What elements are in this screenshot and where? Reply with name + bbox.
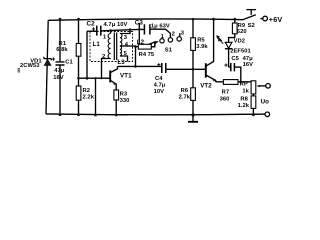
node junction dots bottom rail [59,113,255,116]
terminal Uo- [265,112,270,117]
svg-text:3: 3 [181,30,185,36]
label C1 47u 16V [53,60,73,81]
svg-text:C5: C5 [231,56,239,62]
pin 1 riser [110,31,112,34]
label C4 [154,76,166,95]
transistor VT1 [110,66,117,90]
svg-text:R8: R8 [240,96,248,102]
stray mark [18,68,20,73]
wire C4 to VT2 base [166,68,206,70]
switch S1 contact 1 [160,39,164,43]
svg-text:L1: L1 [93,41,101,48]
resistor R2 [76,86,81,100]
svg-text:R2: R2 [83,88,91,94]
svg-text:75: 75 [148,52,155,58]
svg-text:L3: L3 [117,59,125,66]
label C2 [87,20,128,28]
svg-text:R7: R7 [222,89,230,95]
label VD2 2EF501 [230,38,251,54]
capacitor C2 [92,26,101,36]
svg-text:1μ 63V: 1μ 63V [151,23,170,29]
node junction pin4 R4 [134,45,137,48]
terminal Uo+ [266,84,271,89]
potentiometer RP [251,81,266,94]
wire R3 to bottom rail [115,100,117,115]
label R5 3.9k [196,37,208,50]
ground [188,113,198,122]
transformer core [114,33,116,61]
resistor R4 [136,42,155,49]
node junction collector line [134,65,137,68]
svg-text:U​o: U​o [261,98,270,105]
label R7 360 [220,89,230,102]
switch S1 contact 3 [177,37,181,41]
svg-text:S1: S1 [165,47,173,53]
svg-text:620: 620 [237,29,247,35]
label R8 1.2k [238,96,250,108]
svg-text:2EF501: 2EF501 [230,49,251,55]
resistor R7 [223,80,238,85]
node junction base pin2 [100,77,102,79]
transformer dashed box [90,32,133,62]
svg-text:6.8k: 6.8k [56,47,68,53]
capacitor C1 [52,58,65,66]
svg-text:330: 330 [120,98,130,104]
diode VD2 [225,42,232,67]
svg-text:4.7μ 10V: 4.7μ 10V [104,22,128,28]
svg-text:S2: S2 [248,23,255,29]
wire R1 R2 branch [78,19,80,115]
label R3 330 [120,92,130,104]
zener VD1 [44,57,52,66]
svg-text:1.2k: 1.2k [238,103,250,109]
wire bottom rail [46,113,265,116]
wire collector line VT1 to C4 [118,65,162,67]
svg-text:2.2k: 2.2k [83,94,95,100]
node junction R5 R6 base [192,68,195,71]
svg-text:R5: R5 [197,37,205,43]
svg-text:3: 3 [124,35,128,41]
wire C2 left [87,31,97,78]
wire left edge [46,20,48,114]
svg-text:3.9k: 3.9k [196,44,208,50]
svg-text:16V: 16V [53,75,64,81]
svg-text:C4: C4 [155,76,163,82]
svg-text:2: 2 [172,32,175,38]
svg-text:C1: C1 [65,60,73,66]
switch S2 [243,10,263,20]
label C5 47u 16V [231,56,253,68]
wire C3 right to contact 2 [150,29,171,37]
transformer L2 winding [120,34,122,47]
svg-text:47μ: 47μ [54,68,65,74]
wire contact 3 stub [179,33,181,36]
label R4 75 [139,52,155,58]
capacitor C5 [224,63,240,82]
svg-text:47μ: 47μ [243,56,254,62]
wire top rail [48,19,243,20]
pin 5 wire [120,56,128,62]
svg-text:RP: RP [240,82,248,88]
resistor R9 [229,19,237,42]
svg-text:+6V: +6V [269,15,283,24]
switch S1 contact 2 [168,38,172,42]
node junction C5 emitter [240,81,243,84]
node junction dots top rail [59,18,237,21]
label R9 620 [237,23,247,35]
node junction base C2 [86,77,89,80]
svg-text:C2: C2 [87,20,96,27]
pin 4 wire [120,45,136,47]
svg-text:10V: 10V [154,89,165,95]
svg-text:VD2: VD2 [234,38,245,44]
switch S1 wiper arm [139,42,155,48]
resistor R8 [251,94,256,115]
resistor R5 [191,19,196,69]
label RP 1k [240,82,250,95]
capacitor C4 [157,63,166,73]
svg-text:R6: R6 [181,88,189,94]
terminal +6V [263,16,268,21]
resistor R3 [114,90,119,100]
label R1 6.8k [56,41,68,53]
svg-text:2: 2 [102,54,105,60]
svg-text:VT1: VT1 [120,73,132,80]
wire pin4 down to collector line [135,47,137,67]
wire VT1 base [79,77,111,79]
wire C2 to C3 [101,29,144,30]
svg-text:1k: 1k [242,88,249,94]
label VD1 2CW53 [20,58,42,69]
svg-text:VT2: VT2 [200,82,212,89]
resistor R1 [76,44,81,57]
node junction pin3 riser [129,28,132,31]
label R6 2.7k [179,88,191,100]
wire VT2 emitter line [216,81,254,83]
pin 2 wire [102,59,111,79]
svg-text:2CW53: 2CW53 [20,63,40,69]
transformer L1 winding [108,34,110,59]
resistor R6 [191,69,196,115]
node junction base R1R2 [77,77,80,80]
wire C3 left vertical to S1 wiper [138,23,140,48]
svg-text:1: 1 [161,34,165,40]
node junction C3 left [138,28,140,30]
transformer L3 winding [120,46,122,56]
svg-text:R4: R4 [139,52,147,58]
VD2 emission arrows [216,35,223,44]
capacitor C3 [144,24,150,34]
pin 3 wire [120,30,130,34]
wire base to bottom rail [95,78,97,115]
svg-text:4.7μ: 4.7μ [154,83,166,89]
label R2 2.2k [83,88,95,100]
transistor VT2 [206,19,216,82]
svg-text:4: 4 [125,42,129,48]
svg-text:R9: R9 [238,23,246,29]
svg-text:R3: R3 [120,92,128,98]
node junction C2 top [109,29,112,32]
svg-text:360: 360 [220,96,230,102]
svg-text:R1: R1 [59,41,67,47]
svg-text:2.7k: 2.7k [179,95,191,101]
svg-text:16V: 16V [243,62,254,68]
wire C1 branch [59,19,61,115]
svg-text:1: 1 [103,34,107,40]
